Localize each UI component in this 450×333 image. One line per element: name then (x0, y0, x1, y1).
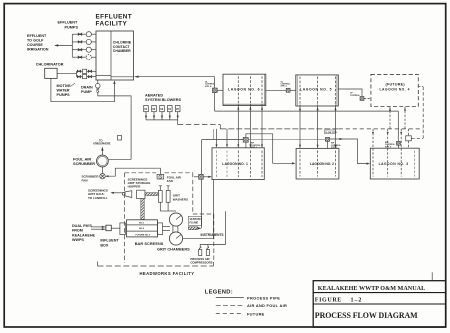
headworks facility dashed boundary (98, 173, 214, 266)
svg-text:INFLUENT: INFLUENT (100, 239, 119, 243)
svg-text:PROCESS PIPE: PROCESS PIPE (247, 296, 280, 301)
svg-text:LAGOON NO. 1: LAGOON NO. 1 (222, 162, 248, 166)
svg-text:LAGOON NO. 3: LAGOON NO. 3 (379, 162, 409, 166)
svg-text:LAGOON NO. 6: LAGOON NO. 6 (228, 88, 260, 92)
svg-text:FLUME: FLUME (190, 221, 199, 224)
venturi flume (188, 216, 223, 237)
svg-text:EFFLUENT: EFFLUENT (27, 34, 47, 38)
svg-text:FAN: FAN (82, 178, 88, 182)
svg-text:PUMPS: PUMPS (65, 25, 79, 29)
small label box on air main near lagoon 5 (324, 130, 338, 134)
foul air scrubber (97, 155, 109, 173)
svg-text:FROM: FROM (72, 229, 83, 233)
wire: lagoon 1 to lagoon 2 transfer (246, 134, 296, 165)
lagoon no. 5 (296, 75, 339, 106)
title block (313, 272, 446, 327)
bar screens (127, 220, 164, 246)
svg-text:TO GOLF: TO GOLF (27, 38, 44, 42)
svg-text:FUTURE NO.3: FUTURE NO.3 (136, 235, 151, 237)
small junction box near blowers (118, 136, 122, 141)
wire: future lagoon 4 connection (dashed) (411, 87, 423, 139)
svg-text:NO.1: NO.1 (139, 223, 145, 225)
svg-text:EFFLUENT: EFFLUENT (96, 13, 133, 20)
wire and control structure: lagoon 5 to future lagoon 4 (338, 89, 371, 101)
svg-text:LEGEND:: LEGEND: (205, 289, 233, 295)
svg-text:PROCESS FLOW DIAGRAM: PROCESS FLOW DIAGRAM (315, 311, 418, 320)
wire: influent box to bar screens (111, 227, 120, 229)
label: screenings grit haul to landfill (88, 189, 123, 200)
label: motive water pumps (57, 83, 76, 97)
control structure above lagoon 3 (outlet to line A) (385, 111, 401, 148)
svg-text:IRRIGATION: IRRIGATION (27, 47, 49, 51)
lagoon no. 1 (212, 148, 264, 180)
svg-text:TO LANDFILL: TO LANDFILL (88, 196, 108, 200)
svg-text:BAR SCREENS: BAR SCREENS (135, 242, 164, 246)
aerated system blowers (5 units) (144, 106, 180, 120)
svg-text:STR. 4: STR. 4 (205, 85, 212, 88)
wire: blower discharge header / air main (146, 120, 423, 129)
svg-text:GRIT CHAMBERS: GRIT CHAMBERS (157, 247, 190, 251)
wire: chlorine solution line to contact chamber (51, 78, 116, 101)
wire: scrubber vent to atmosphere (101, 147, 103, 155)
svg-text:WATER: WATER (57, 89, 70, 93)
svg-text:SCRUBBER: SCRUBBER (73, 161, 95, 166)
air drops: lagoon 3 (future, dashed) (372, 129, 411, 177)
process air compressors (190, 211, 225, 264)
grit washers (158, 186, 188, 211)
svg-text:FAN: FAN (167, 179, 173, 183)
svg-text:BOX: BOX (100, 243, 109, 247)
svg-text:CHAMBER: CHAMBER (113, 49, 131, 53)
wire: lagoon effluent line into contact chamber (135, 76, 215, 89)
grit chambers (157, 213, 190, 252)
svg-text:1–2: 1–2 (351, 297, 362, 303)
lagoon no. 6 (223, 74, 266, 105)
svg-text:WASHERS: WASHERS (173, 197, 188, 201)
svg-text:MOTIVE: MOTIVE (57, 84, 72, 88)
wire: drain line to scrubber (98, 92, 131, 159)
svg-text:LAGOON NO. 2: LAGOON NO. 2 (310, 162, 334, 166)
chlorinator box (45, 68, 57, 78)
svg-text:STR. 5: STR. 5 (281, 86, 288, 88)
svg-text:PUMPS: PUMPS (57, 93, 71, 97)
svg-text:HEADWORKS FACILITY: HEADWORKS FACILITY (140, 271, 195, 276)
drain pump (96, 80, 101, 92)
svg-text:DUAL FM'S: DUAL FM'S (72, 224, 92, 228)
svg-text:CONTROL: CONTROL (350, 95, 361, 97)
svg-text:STR. 3: STR. 3 (385, 146, 392, 148)
influent box (100, 225, 119, 247)
svg-text:SYSTEM BLOWERS: SYSTEM BLOWERS (145, 98, 182, 102)
scrubber fan (100, 174, 105, 179)
svg-text:FLOW CTRL: FLOW CTRL (325, 132, 338, 134)
svg-text:(FUTURE): (FUTURE) (386, 83, 406, 87)
lagoon no. 3 (370, 148, 419, 179)
wire: flume discharge riser to lagoons (201, 140, 203, 229)
wire: effluent to golf course (54, 44, 72, 46)
air drops: future lagoon 4 (dashed) (389, 107, 406, 129)
wire: dual force mains (91, 226, 106, 231)
wire: instruments connections (183, 129, 214, 239)
svg-text:STR. 2: STR. 2 (331, 147, 338, 149)
control structure between lagoons 6 and 5 (266, 81, 296, 92)
svg-text:AERATED: AERATED (145, 93, 163, 97)
svg-text:AIR AND FOUL AIR: AIR AND FOUL AIR (247, 303, 287, 308)
svg-text:LAGOON NO. 4: LAGOON NO. 4 (380, 87, 410, 91)
legend (205, 289, 287, 316)
air drops: lagoon 6 / lagoon 1 column (216, 76, 264, 177)
air drops: lagoon 5 / lagoon 2 column (299, 77, 337, 177)
effluent facility / chlorine contact chamber box (96, 31, 134, 80)
label: DUAL FM'S FROM KEALAKEHE WWPS (72, 224, 95, 242)
svg-text:COMPRESSORS: COMPRESSORS (190, 261, 212, 265)
svg-text:DRAIN: DRAIN (81, 85, 93, 89)
future lagoon no. 4 (dashed) (371, 74, 418, 106)
bar screens inlet channel (120, 223, 125, 235)
motive water pumps (2 rows) (77, 69, 97, 79)
label: screenings grit storage hopper (128, 177, 151, 188)
influent control structure at lagoon 1 inlet (194, 174, 212, 179)
svg-text:EFFLUENT: EFFLUENT (58, 21, 79, 25)
svg-text:HOPPER: HOPPER (128, 185, 142, 189)
svg-text:PUMP: PUMP (81, 90, 92, 94)
lagoon no. 2 (296, 148, 339, 179)
influent control structure above lagoon 1 (202, 137, 326, 149)
control structure (outfall junction) at lagoon 6 (205, 82, 223, 112)
control structure above lagoon 2 and transfer to lagoon 3 (325, 137, 370, 164)
svg-text:LAGOON NO. 5: LAGOON NO. 5 (300, 88, 332, 92)
wire: foul air duct from headworks to scrubber fan (105, 168, 160, 177)
svg-text:FIGURE: FIGURE (315, 297, 342, 303)
svg-text:ATMOSPHERE: ATMOSPHERE (93, 143, 111, 146)
screenings hopper and conveyors (122, 190, 158, 219)
svg-text:FUTURE: FUTURE (247, 312, 265, 317)
svg-text:FACILITY: FACILITY (96, 21, 128, 28)
svg-text:WWPS: WWPS (72, 238, 84, 242)
wire: chlorinator to motive water pumps (57, 72, 76, 74)
svg-text:KEALAKEHE WWTP O&M MANUAL: KEALAKEHE WWTP O&M MANUAL (318, 286, 425, 292)
label: effluent to golf course irrigation (27, 34, 49, 52)
wire: line A (lagoon 3 to outfall header) (215, 110, 399, 112)
foul air fan (157, 174, 182, 183)
svg-text:KEALAKEHE: KEALAKEHE (72, 233, 95, 237)
wires: bar screens to grit chambers (163, 227, 171, 231)
svg-text:NO.2: NO.2 (139, 228, 145, 230)
svg-text:COURSE: COURSE (27, 43, 43, 47)
svg-text:CHLORINATOR: CHLORINATOR (36, 63, 64, 67)
svg-text:INSTRUMENTS: INSTRUMENTS (201, 233, 224, 237)
svg-text:STR. 1: STR. 1 (251, 147, 258, 149)
effluent pumps (4 circles, no.4 future) (72, 32, 96, 60)
